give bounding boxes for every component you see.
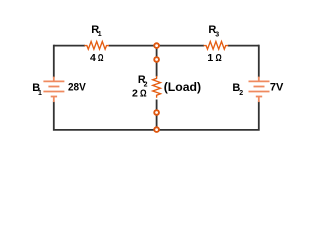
svg-text:3: 3	[215, 32, 219, 39]
B1 plate long bottom	[43, 91, 64, 93]
node load bottom terminal	[154, 110, 159, 115]
svg-text:7V: 7V	[270, 82, 284, 94]
svg-text:1: 1	[38, 90, 42, 97]
svg-text:2: 2	[239, 90, 243, 97]
B1 top terminal stub	[53, 77, 55, 82]
B2 plate long top	[249, 80, 270, 82]
battery B1	[43, 77, 64, 103]
wire middle branch lower	[156, 100, 158, 130]
svg-text:1: 1	[207, 52, 213, 64]
svg-text:2: 2	[132, 87, 138, 99]
wire bottom-right + right vertical lower	[157, 102, 259, 130]
svg-text:Ω: Ω	[140, 87, 147, 99]
resistor R2 (vertical, load)	[153, 76, 161, 98]
resistor R1	[84, 41, 109, 49]
B2 plate short middle	[254, 86, 265, 88]
wire middle branch upper	[156, 46, 158, 77]
B2 plate short bottom	[256, 96, 262, 98]
svg-text:Ω: Ω	[98, 52, 104, 64]
svg-text:Ω: Ω	[216, 52, 222, 64]
B1 plate long top	[43, 80, 64, 82]
B2 plate long bottom	[249, 91, 270, 93]
battery B2	[249, 77, 270, 103]
B1 bottom terminal stub	[53, 97, 55, 103]
B1 plate short bottom	[51, 96, 57, 98]
wire top-left segment	[54, 45, 85, 47]
wire top-middle segment	[109, 45, 157, 47]
node bottom junction	[154, 127, 159, 132]
svg-text:4: 4	[90, 52, 96, 64]
wire left vertical lower + bottom-left	[54, 102, 157, 130]
svg-text:1: 1	[98, 31, 102, 38]
svg-text:(Load): (Load)	[164, 80, 201, 94]
wire left vertical upper	[53, 45, 55, 78]
node top junction	[154, 43, 159, 48]
B1 plate short middle	[48, 86, 59, 88]
wire top far-right segment	[228, 45, 259, 47]
wire right vertical upper	[258, 45, 260, 78]
svg-text:28V: 28V	[68, 82, 86, 94]
node load top terminal	[154, 57, 159, 62]
B2 bottom terminal stub	[258, 97, 260, 103]
B2 top terminal stub	[258, 77, 260, 82]
wire top-right segment	[157, 45, 204, 47]
resistor R3	[204, 41, 229, 49]
